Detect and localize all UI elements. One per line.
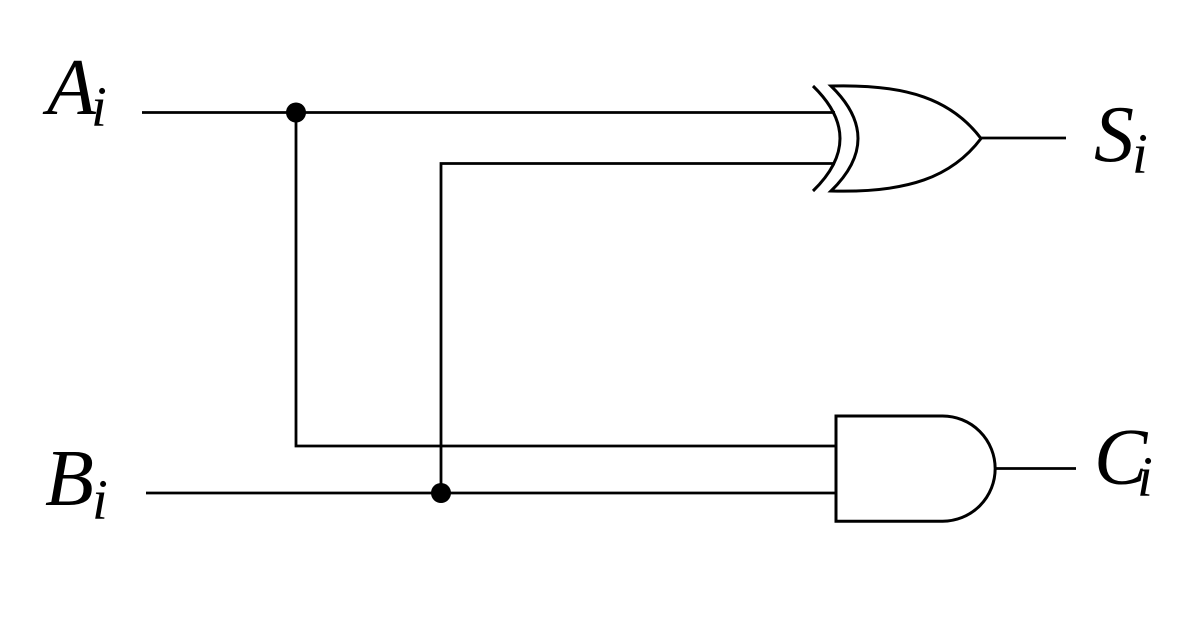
and-gate U2 bbox=[836, 416, 995, 521]
svg-text:i: i bbox=[92, 469, 108, 532]
xor-gate U1 input arc bbox=[813, 86, 840, 191]
junction node A bbox=[286, 103, 306, 123]
svg-text:i: i bbox=[1137, 446, 1153, 509]
wire: branch from node B up then right to XOR bottom input bbox=[441, 164, 835, 494]
wire: input B_i horizontal bbox=[146, 492, 836, 495]
svg-text:i: i bbox=[1132, 123, 1148, 186]
wire: input A_i horizontal bbox=[142, 111, 835, 114]
xor-gate U1 body bbox=[831, 86, 981, 191]
wire: XOR output to S_i bbox=[981, 137, 1066, 140]
svg-text:S: S bbox=[1094, 91, 1134, 179]
svg-text:B: B bbox=[45, 435, 94, 523]
wire: AND output to C_i bbox=[995, 467, 1076, 470]
label C_i bbox=[1094, 414, 1153, 509]
svg-text:A: A bbox=[42, 44, 97, 132]
svg-text:i: i bbox=[91, 76, 107, 139]
label A_i bbox=[42, 44, 107, 139]
label B_i bbox=[45, 435, 108, 532]
label S_i bbox=[1094, 91, 1148, 186]
wire: branch from node A down then right to AND top input bbox=[296, 113, 836, 447]
junction node B bbox=[431, 483, 451, 503]
